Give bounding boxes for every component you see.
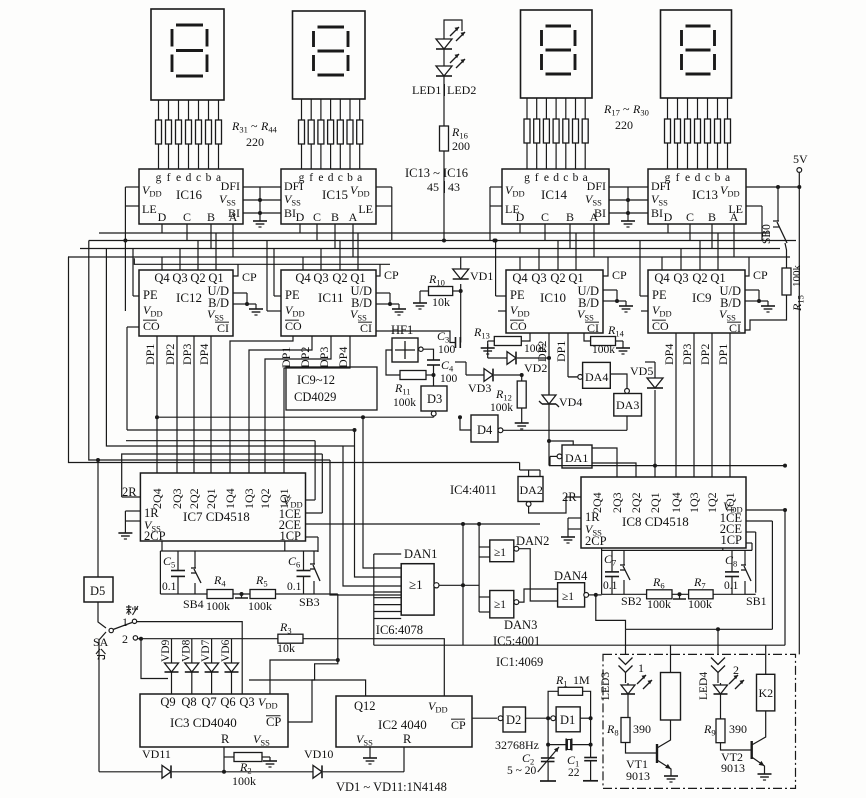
IC8 left ground bracket [568, 517, 581, 519]
7-segment display DS2 [293, 11, 366, 99]
IC3 CP pin wire [288, 680, 366, 722]
svg-text:CP: CP [612, 268, 627, 282]
driver IC13 [648, 169, 746, 224]
svg-text:D5: D5 [90, 584, 105, 598]
wire DAN4 output to set rail [589, 594, 602, 596]
wire D4 output to DA3 [503, 429, 627, 431]
wire DAN4 node down to relay enable 1 [596, 595, 626, 629]
svg-text:1Q2: 1Q2 [258, 488, 272, 509]
svg-text:DFI: DFI [587, 179, 606, 193]
wire DA2 output to IC8 2R [529, 497, 581, 513]
svg-text:SB2: SB2 [621, 594, 642, 608]
svg-text:CP: CP [242, 270, 257, 284]
svg-text:2Q1: 2Q1 [648, 492, 662, 513]
svg-text:DA4: DA4 [585, 370, 608, 384]
svg-text:≥1: ≥1 [562, 591, 574, 603]
counter IC7 CD4518 [140, 473, 305, 541]
svg-text:VD4: VD4 [559, 395, 582, 409]
svg-text:9013: 9013 [721, 761, 745, 775]
svg-text:IC16: IC16 [176, 187, 203, 202]
svg-text:e: e [544, 172, 549, 184]
resistor R2 100k [223, 747, 225, 757]
wire bus y=430 [127, 429, 355, 431]
svg-text:C: C [686, 210, 694, 224]
svg-text:2CP: 2CP [585, 534, 607, 548]
logic gate D5 [84, 577, 113, 602]
wire IC3 VDD riser [270, 660, 338, 694]
set rail under IC7 [160, 550, 318, 552]
svg-text:Q1: Q1 [710, 271, 725, 285]
svg-text:100k: 100k [791, 265, 803, 288]
svg-text:Q2: Q2 [550, 271, 565, 285]
svg-text:DA1: DA1 [565, 451, 588, 465]
label box IC9~12 CD4029 [286, 367, 377, 410]
svg-text:d: d [186, 172, 192, 184]
svg-text:VD5: VD5 [630, 364, 653, 378]
svg-text:A: A [730, 210, 739, 224]
wire D2-D1 [526, 717, 551, 719]
svg-text:≥1: ≥1 [494, 547, 506, 559]
svg-text:2Q1: 2Q1 [204, 488, 218, 509]
svg-text:DP4: DP4 [662, 344, 676, 365]
svg-text:f: f [167, 172, 171, 184]
IC10 VDD stub [498, 310, 506, 312]
svg-text:VD1 ~ VD11:1N4148: VD1 ~ VD11:1N4148 [336, 780, 447, 794]
svg-text:IC12: IC12 [176, 290, 202, 305]
svg-text:100k: 100k [688, 597, 712, 611]
svg-text:22: 22 [568, 767, 580, 779]
LED2 [443, 49, 445, 66]
IC7 left ground bracket [125, 510, 140, 512]
svg-text:c: c [563, 172, 568, 184]
svg-text:VD8: VD8 [180, 639, 192, 662]
right verticals [771, 521, 773, 629]
svg-text:a: a [357, 172, 362, 184]
VSS-BI tie ground between IC14 and IC13 [609, 186, 648, 188]
svg-text:DP2: DP2 [298, 347, 312, 368]
svg-text:CI: CI [360, 321, 372, 335]
svg-text:100k: 100k [592, 344, 615, 356]
svg-text:Q2: Q2 [190, 271, 205, 285]
svg-text:IC2 4040: IC2 4040 [378, 717, 427, 732]
svg-text:2R: 2R [562, 490, 577, 504]
junction dots on buses [123, 239, 127, 243]
svg-text:1Q4: 1Q4 [669, 492, 683, 513]
svg-text:10k: 10k [432, 295, 450, 309]
svg-text:DAN4: DAN4 [554, 569, 588, 583]
svg-text:DAN3: DAN3 [504, 618, 537, 632]
svg-text:SB3: SB3 [299, 595, 320, 609]
IC12 U/D B/D pulldown ground [233, 292, 247, 294]
IC11 DP1-DP4 pins staircase [230, 336, 293, 473]
svg-text:d: d [695, 172, 701, 184]
svg-text:1M: 1M [573, 673, 590, 687]
svg-text:220: 220 [246, 135, 264, 149]
IC9 VDD stub [641, 310, 648, 312]
svg-text:A: A [590, 210, 599, 224]
svg-text:DP4: DP4 [336, 347, 350, 368]
svg-text:LED1: LED1 [412, 83, 441, 97]
svg-text:100k: 100k [248, 599, 272, 613]
svg-text:45: 45 [427, 180, 439, 194]
svg-text:CP: CP [451, 718, 466, 732]
svg-text:DP3: DP3 [180, 344, 194, 365]
svg-text:DAN2: DAN2 [516, 534, 549, 548]
svg-text:Q2: Q2 [692, 271, 707, 285]
svg-text:A: A [349, 210, 358, 224]
svg-text:0.1: 0.1 [724, 580, 739, 592]
selector switch SA [126, 606, 132, 608]
svg-text:0.1: 0.1 [603, 580, 618, 592]
wire SA-2 rail [138, 638, 278, 640]
IC7 2R wire [122, 496, 141, 498]
wires IC8 outputs to DA1 [592, 448, 617, 477]
svg-text:CO: CO [652, 319, 669, 333]
wire D1 output [580, 717, 590, 719]
wire SA-1 to IC3 Q3 [137, 622, 242, 694]
svg-text:IC5:4001: IC5:4001 [493, 634, 540, 648]
svg-text:Q4: Q4 [154, 271, 170, 285]
svg-text:100k: 100k [232, 774, 256, 788]
svg-text:Q3: Q3 [172, 271, 187, 285]
mid ground R4/R5 [160, 593, 207, 595]
svg-text:220: 220 [615, 118, 633, 132]
svg-text:C: C [183, 210, 191, 224]
wire DAN2 to DAN4 [519, 549, 558, 601]
svg-text:VD3: VD3 [468, 381, 491, 395]
svg-text:Q4: Q4 [295, 271, 311, 285]
IC12 PE/CO stubs [133, 295, 139, 297]
svg-text:DFI: DFI [651, 179, 670, 193]
driver IC14 [502, 169, 609, 224]
svg-text:VD7: VD7 [200, 639, 212, 662]
svg-text:D: D [158, 210, 167, 224]
svg-text:e: e [176, 172, 181, 184]
svg-text:Q3: Q3 [673, 271, 688, 285]
svg-text:g: g [524, 172, 530, 184]
switch SB2 [623, 550, 625, 562]
counter IC3 CD4040 [140, 694, 288, 747]
svg-text:Q1: Q1 [568, 271, 583, 285]
svg-text:DFI: DFI [284, 179, 303, 193]
counter IC11 CD4029 [281, 270, 376, 336]
svg-text:C: C [313, 210, 321, 224]
wire SA-2 branch under diodes [141, 639, 168, 679]
svg-text:43: 43 [448, 180, 460, 194]
svg-text:DP1: DP1 [554, 341, 568, 362]
IC9 U/D B/D pulldown ground [745, 289, 759, 291]
svg-text:2Q2: 2Q2 [187, 488, 201, 509]
wire R15 to IC9 CI [745, 295, 787, 330]
svg-text:VD9: VD9 [160, 639, 172, 662]
set rail under IC8 [602, 549, 752, 551]
svg-text:IC1:4069: IC1:4069 [496, 655, 543, 669]
bus wire y=248 [80, 248, 780, 250]
svg-text:B: B [708, 210, 716, 224]
IC11 U/D B/D pulldown ground [376, 292, 390, 294]
IC8 2Q1 pin riser to VD5 [654, 466, 656, 477]
svg-text:VD6: VD6 [220, 639, 232, 662]
svg-text:2Q3: 2Q3 [170, 488, 184, 509]
svg-text:Q4: Q4 [654, 271, 670, 285]
svg-text:CO: CO [510, 319, 527, 333]
svg-text:DP4: DP4 [197, 344, 211, 365]
svg-text:PE: PE [285, 288, 300, 302]
svg-text:IC9: IC9 [692, 290, 712, 305]
svg-text:A: A [229, 210, 238, 224]
DA2 input bracket [520, 469, 540, 471]
resistor R16 [440, 126, 449, 151]
svg-text:0.1: 0.1 [287, 581, 302, 593]
svg-text:100k: 100k [647, 597, 671, 611]
IC12 DP1-DP4 pins [156, 336, 158, 473]
svg-text:DA3: DA3 [616, 398, 639, 412]
svg-text:1: 1 [122, 615, 128, 629]
svg-text:IC6:4078: IC6:4078 [376, 623, 423, 637]
wires from driver DCBA pins to buses [161, 224, 163, 233]
switch SB4 [194, 551, 196, 565]
VSS-BI tie ground between IC16 and IC15 [243, 186, 260, 188]
logic gate D3 [421, 386, 447, 411]
resistor R10 10k [429, 287, 453, 296]
svg-text:~: ~ [623, 102, 630, 116]
wire SB1 rail corner [745, 593, 756, 595]
svg-text:DP2: DP2 [163, 344, 177, 365]
svg-text:LE: LE [142, 202, 157, 216]
wire R3 to IC2 VDD [303, 639, 444, 696]
resistor bank R17-R30 (right half) [526, 98, 528, 119]
svg-text:1CP: 1CP [279, 529, 301, 543]
svg-text:200: 200 [452, 139, 470, 153]
wire IC13 LE right [746, 205, 762, 207]
svg-text:B: B [566, 210, 574, 224]
LED1 [444, 20, 462, 37]
svg-text:Q2: Q2 [332, 271, 347, 285]
svg-text:5 ~ 20: 5 ~ 20 [507, 765, 536, 777]
bus wire y=257 [68, 256, 790, 258]
wire left rail x=68.5 [68, 257, 520, 463]
svg-text:BI: BI [284, 206, 296, 220]
mid ground R6/R7 [672, 593, 689, 595]
wire left rail x=88.8 [89, 241, 330, 461]
resistor R15 100k [782, 268, 791, 295]
svg-text:PE: PE [652, 288, 667, 302]
svg-text:f: f [535, 172, 539, 184]
diodes VD9 VD8 VD7 VD6 [171, 639, 173, 663]
svg-text:CI: CI [217, 321, 229, 335]
switch SB3 [313, 551, 315, 561]
logic gate DA3 [614, 394, 642, 417]
svg-text:0.1: 0.1 [162, 581, 177, 593]
wire VD4 node to DA1 top [549, 441, 573, 445]
svg-text:D2: D2 [506, 713, 521, 727]
svg-text:DAN1: DAN1 [404, 547, 437, 561]
zener diode VD4 [548, 358, 550, 395]
7-segment display DS4 [661, 10, 732, 98]
svg-text:PE: PE [143, 288, 158, 302]
svg-text:100k: 100k [393, 397, 416, 409]
wire IC15 VDD/LE right rail [376, 186, 392, 188]
svg-text:32768Hz: 32768Hz [495, 738, 539, 752]
svg-text:IC13 ~ IC16: IC13 ~ IC16 [405, 166, 468, 180]
svg-text:R: R [403, 732, 412, 746]
entry 1 chevrons [619, 658, 633, 665]
svg-text:CO: CO [143, 319, 160, 333]
svg-text:DFI: DFI [221, 179, 240, 193]
svg-text:CD4029: CD4029 [294, 390, 336, 404]
diode VD1 [460, 257, 462, 269]
wire y=524 horizontal [328, 523, 540, 525]
svg-text:≥1: ≥1 [409, 577, 423, 592]
wire IC2 R pin down [403, 747, 405, 772]
svg-text:IC8 CD4518: IC8 CD4518 [622, 514, 689, 529]
svg-text:BI: BI [651, 206, 663, 220]
svg-text:IC3 CD4040: IC3 CD4040 [170, 715, 237, 730]
svg-text:CI: CI [587, 321, 599, 335]
svg-text:Q7: Q7 [201, 695, 216, 709]
svg-text:d: d [328, 172, 334, 184]
diode VD2 [488, 357, 507, 359]
svg-text:VD10: VD10 [304, 747, 333, 761]
7-segment display DS1 [151, 9, 224, 100]
svg-text:CO: CO [285, 319, 302, 333]
counter IC8 CD4518 [581, 477, 746, 548]
svg-text:DP1: DP1 [716, 344, 730, 365]
svg-text:IC14: IC14 [541, 187, 568, 202]
bus wire y=233 [99, 232, 770, 234]
crystal B [547, 718, 549, 744]
IC11 PE/VDD stubs [274, 295, 281, 297]
wire IC13 VDD to 5V rail [746, 186, 799, 188]
svg-text:IC10: IC10 [540, 290, 566, 305]
svg-text:DP1: DP1 [143, 344, 157, 365]
entry 2 chevrons [711, 658, 725, 665]
wire DAN1 output [439, 584, 479, 586]
svg-text:DA2: DA2 [520, 483, 543, 497]
svg-text:PE: PE [510, 288, 525, 302]
svg-text:VD1: VD1 [470, 269, 493, 283]
svg-text:2: 2 [122, 632, 128, 646]
svg-text:LED4: LED4 [698, 672, 710, 700]
logic gate DA4 [583, 362, 611, 388]
svg-text:10k: 10k [277, 641, 295, 655]
wire bus y=417.2 [157, 416, 434, 418]
svg-text:C: C [541, 210, 549, 224]
counter IC12 CD4029 [139, 270, 233, 336]
svg-text:Q3: Q3 [313, 271, 328, 285]
svg-text:IC15: IC15 [322, 187, 348, 202]
wire IC16 VDD/LE to left rail [125, 186, 139, 188]
svg-text:VD2: VD2 [524, 361, 547, 375]
svg-text:b: b [573, 172, 579, 184]
gate DA2 [518, 477, 543, 502]
svg-text:CI: CI [729, 321, 741, 335]
svg-text:IC4:4011: IC4:4011 [450, 483, 497, 497]
svg-text:Q6: Q6 [220, 695, 235, 709]
svg-text:5V: 5V [793, 152, 808, 166]
svg-text:2Q3: 2Q3 [610, 492, 624, 513]
svg-text:100k: 100k [206, 599, 230, 613]
svg-text:Q1: Q1 [350, 271, 365, 285]
wire DAN3 to DAN4 [519, 589, 558, 602]
svg-text:1: 1 [638, 661, 644, 675]
IC2 VSS ground [369, 747, 371, 752]
logic gate D4 [471, 415, 498, 442]
IC10 DP2 DP1 pins [548, 333, 550, 395]
svg-text:390: 390 [633, 722, 651, 736]
svg-text:HF1: HF1 [391, 323, 413, 337]
svg-text:IC9~12: IC9~12 [297, 373, 335, 387]
IC10 PE stub to bus [496, 295, 506, 297]
wire bottom rail [224, 771, 313, 773]
wire IC7 bottom pins [161, 541, 163, 551]
svg-text:g: g [156, 172, 162, 184]
svg-text:2Q2: 2Q2 [629, 492, 643, 513]
svg-text:K2: K2 [759, 686, 774, 700]
svg-text:DP2: DP2 [698, 344, 712, 365]
counter IC10 CD4029 [506, 270, 603, 333]
svg-text:DP3: DP3 [680, 344, 694, 365]
svg-text:1Q3: 1Q3 [242, 488, 256, 509]
wire y=645 long rail [374, 644, 785, 646]
wire left rail x=106.4 [106, 249, 343, 447]
IC10 U/D B/D pulldown ground [603, 289, 617, 291]
svg-text:R: R [221, 732, 230, 746]
svg-text:D3: D3 [427, 392, 442, 406]
IC7 right stubs [306, 499, 316, 501]
svg-text:e: e [685, 172, 690, 184]
svg-text:IC13: IC13 [692, 187, 718, 202]
IC2 CP stub to D2 [472, 717, 497, 719]
svg-text:f: f [309, 172, 313, 184]
wire D5 top [97, 460, 99, 577]
svg-text:LED3: LED3 [600, 672, 612, 700]
svg-text:D: D [296, 210, 305, 224]
svg-text:Q1: Q1 [208, 271, 223, 285]
switch SB1 [744, 550, 746, 562]
svg-text:Q8: Q8 [181, 695, 196, 709]
DAN2 DAN3 input bracket [478, 524, 480, 612]
svg-text:100: 100 [440, 373, 458, 385]
svg-text:≥1: ≥1 [494, 599, 506, 611]
svg-text:CP: CP [753, 268, 768, 282]
driver IC15 [281, 169, 376, 224]
svg-text:Q3: Q3 [531, 271, 546, 285]
svg-text:c: c [338, 172, 343, 184]
bus wire y=264.3 [134, 258, 390, 264]
svg-text:2CP: 2CP [144, 529, 166, 543]
wire IC14 VDD/LE left rail [490, 186, 502, 188]
svg-text:CP: CP [384, 268, 399, 282]
DAN1 input stack [373, 554, 375, 645]
svg-text:D: D [664, 210, 673, 224]
wire D5 bottom to SA [98, 602, 106, 628]
svg-text:VD11: VD11 [142, 747, 171, 761]
wire bus y=446 (continue) [343, 445, 355, 447]
IC9 PE stub [640, 295, 648, 297]
counter IC2 4040 [336, 696, 472, 747]
svg-text:B: B [331, 210, 339, 224]
svg-text:DP3: DP3 [317, 347, 331, 368]
svg-text:D4: D4 [477, 423, 493, 437]
resistor bank R31-R44 (left half) [158, 100, 160, 120]
gate DAN3 [490, 591, 514, 618]
IC9 DP4-DP1 pins (down to IC8 1Q pins) [675, 333, 677, 477]
resistor R11 100k [400, 371, 426, 380]
svg-text:100: 100 [438, 344, 456, 356]
svg-text:Q3: Q3 [239, 695, 254, 709]
svg-text:D1: D1 [560, 713, 575, 727]
